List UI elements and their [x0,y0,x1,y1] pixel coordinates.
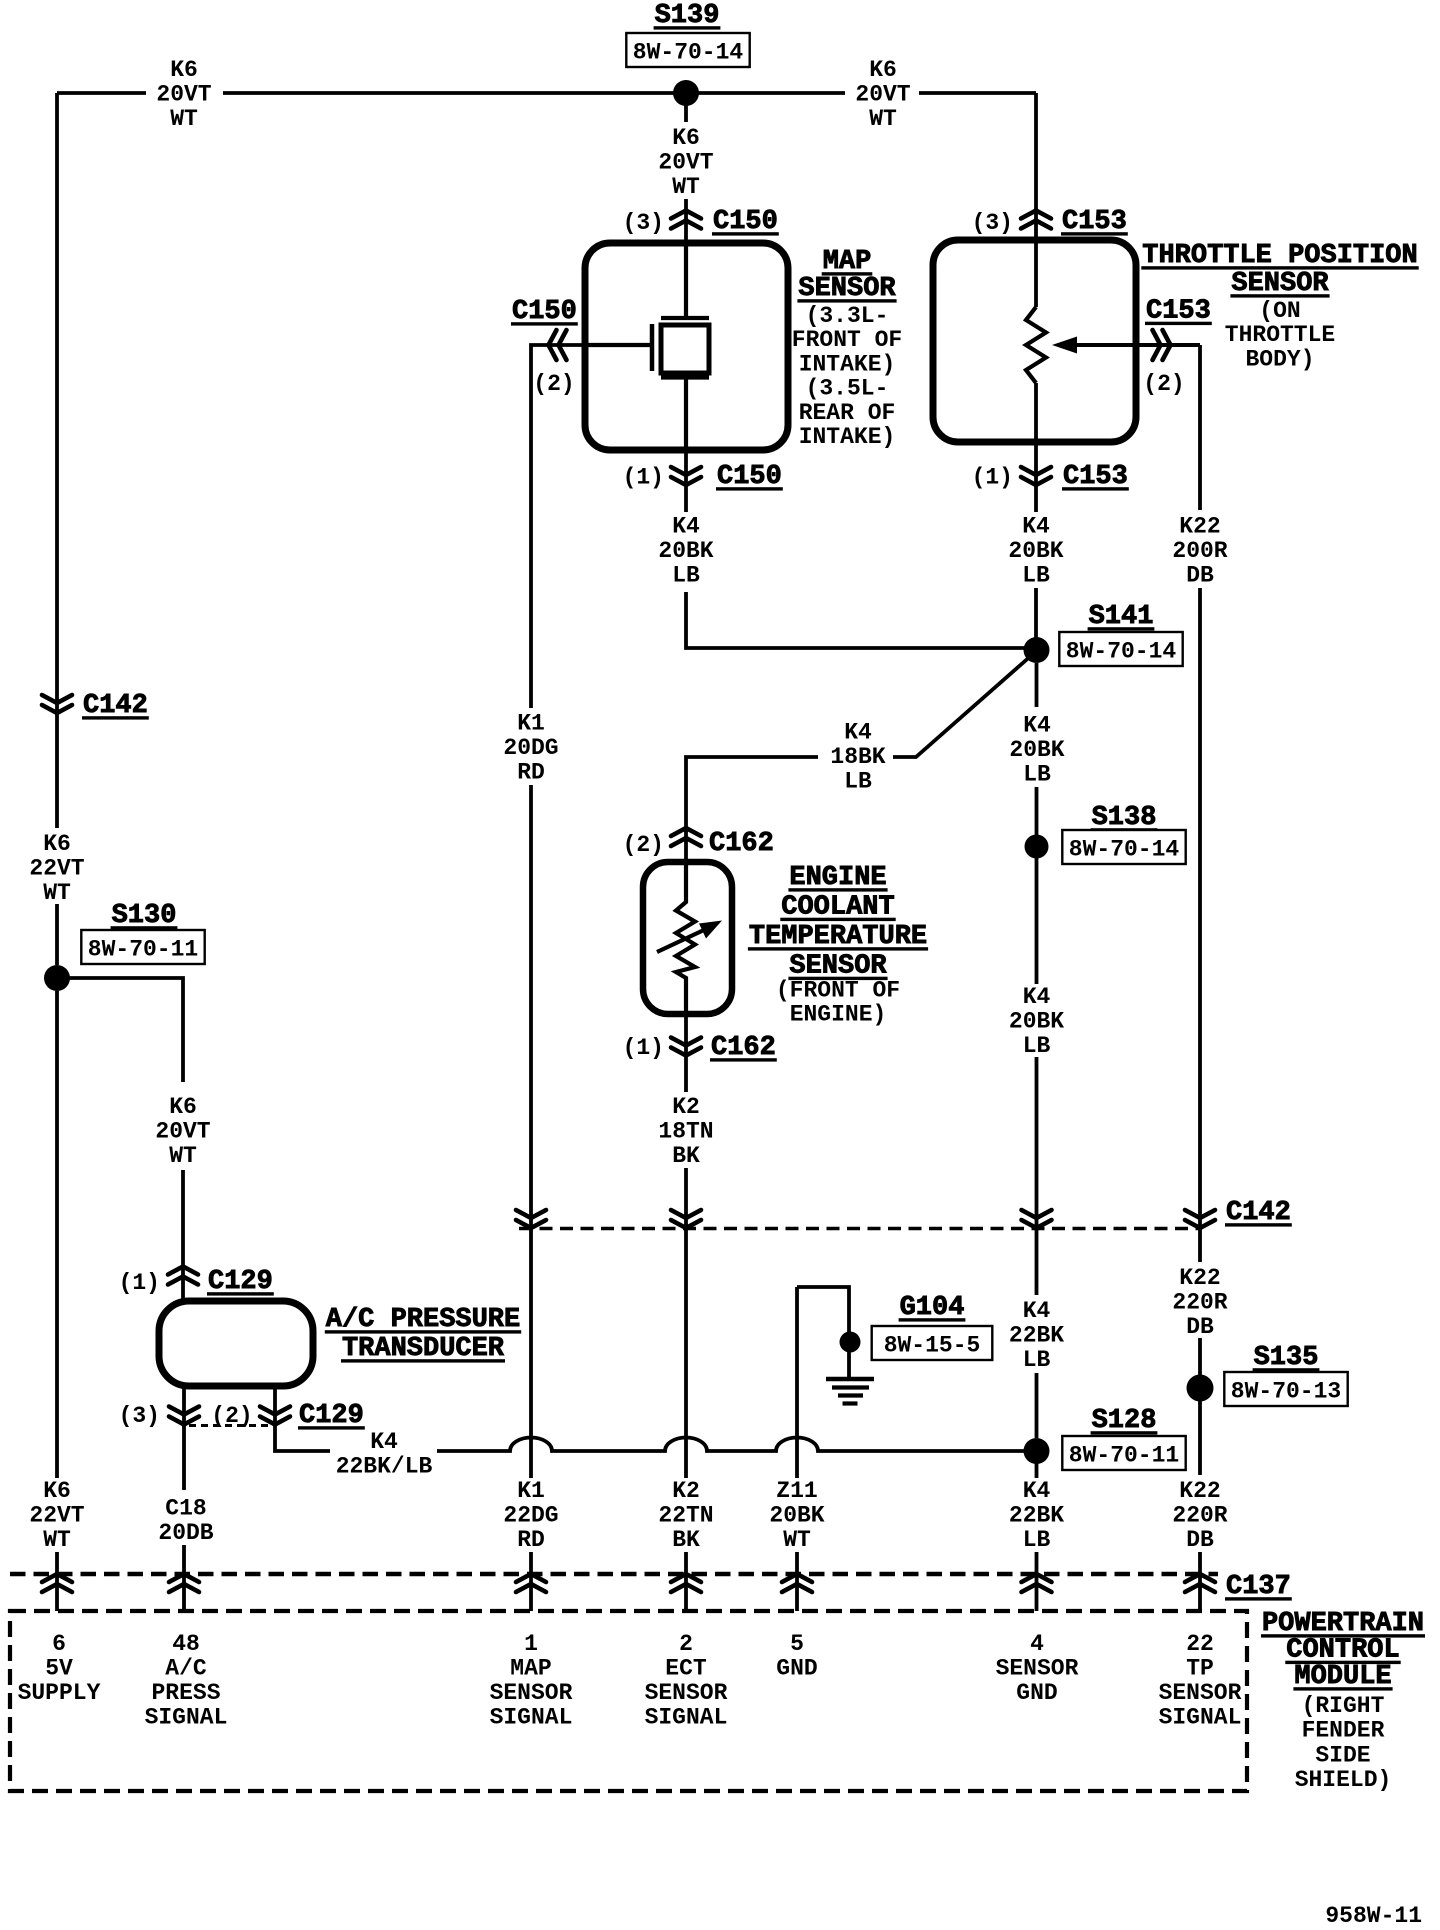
svg-text:BK: BK [672,1143,700,1169]
svg-text:K1: K1 [517,711,545,737]
svg-text:K2: K2 [672,1478,700,1504]
svg-text:(3): (3) [119,1403,160,1429]
wire K4 22BK LB below C142 [1035,1228,1039,1438]
svg-text:20DB: 20DB [158,1520,213,1546]
connector C150 pin 2 symbol [549,330,567,360]
svg-text:200R: 200R [1172,538,1227,564]
svg-text:INTAKE): INTAKE) [799,424,896,450]
svg-text:FENDER: FENDER [1302,1718,1385,1744]
connector C153 pin 2 symbol [1153,330,1171,360]
svg-text:SENSOR: SENSOR [490,1680,573,1706]
svg-text:GND: GND [776,1656,817,1682]
wire K22 below C142 [1198,1228,1202,1375]
svg-text:SENSOR: SENSOR [996,1656,1079,1682]
svg-text:DB: DB [1186,563,1214,589]
svg-text:SIDE: SIDE [1315,1742,1370,1768]
ground G104 branch [797,1287,849,1379]
svg-text:Z11: Z11 [776,1478,817,1504]
wire K22 below S135 [1198,1388,1202,1611]
svg-text:20BK: 20BK [1009,1009,1064,1035]
svg-text:SIGNAL: SIGNAL [490,1705,573,1731]
svg-text:20VT: 20VT [156,82,211,108]
connector C142 symbol on K4 [1022,1210,1052,1228]
svg-text:(1): (1) [623,465,664,491]
svg-text:DB: DB [1186,1314,1214,1340]
svg-text:FRONT OF: FRONT OF [792,327,902,353]
svg-text:INTAKE): INTAKE) [799,351,896,377]
svg-text:20VT: 20VT [855,82,910,108]
ref box 8W-70-11 at S130 [81,930,204,964]
svg-text:8W-70-13: 8W-70-13 [1231,1379,1341,1405]
svg-text:20BK: 20BK [658,538,713,564]
ECT thermistor element [676,862,695,1014]
svg-text:22BK/LB: 22BK/LB [336,1454,433,1480]
svg-text:WT: WT [869,106,897,132]
svg-text:20BK: 20BK [769,1503,824,1529]
powertrain control module dashed body [10,1611,1247,1791]
svg-text:SHIELD): SHIELD) [1295,1767,1392,1793]
svg-text:6: 6 [52,1631,66,1657]
svg-text:20BK: 20BK [1008,538,1063,564]
svg-text:K4: K4 [370,1429,398,1455]
svg-text:C162: C162 [709,829,774,859]
wire K4 from TPS pin 1 [1034,383,1038,650]
splice S141 [1024,637,1050,663]
svg-text:8W-70-11: 8W-70-11 [1069,1443,1179,1469]
ground G104 splice dot [840,1332,861,1353]
svg-text:220R: 220R [1172,1503,1227,1529]
ECT thermistor arrow [657,929,706,952]
svg-text:20VT: 20VT [658,150,713,176]
svg-text:22VT: 22VT [29,856,84,882]
splice S138 [1025,835,1049,859]
svg-text:(2): (2) [1143,371,1184,397]
wire K4 S138 down to C142 [1035,858,1039,1228]
connector C142 symbol on K22 [1185,1210,1215,1228]
svg-text:RD: RD [517,1527,545,1553]
svg-text:8W-70-14: 8W-70-14 [1069,837,1180,863]
splice S135 [1187,1375,1214,1402]
svg-text:LB: LB [1023,1527,1051,1553]
splice S128 [1024,1438,1050,1464]
svg-text:WT: WT [672,174,700,200]
connector C142 symbol (left) [42,695,72,713]
svg-text:ENGINE): ENGINE) [790,1002,887,1028]
svg-text:GND: GND [1016,1680,1057,1706]
svg-text:(RIGHT: (RIGHT [1302,1693,1385,1719]
svg-text:K4: K4 [1023,1298,1051,1324]
wire K6 from S139 to MAP sensor [684,93,688,243]
wire K4 18BK LB from S141 to ECT [686,654,1033,862]
svg-text:(1): (1) [972,465,1013,491]
svg-text:(1): (1) [119,1270,160,1296]
svg-text:(3.5L-: (3.5L- [806,376,889,402]
svg-text:K4: K4 [672,514,700,540]
svg-text:K2: K2 [672,1094,700,1120]
svg-text:K22: K22 [1179,1265,1220,1291]
throttle position sensor body [933,240,1136,442]
svg-text:22DG: 22DG [503,1503,558,1529]
svg-text:K1: K1 [517,1478,545,1504]
wire on left - K6 down from top [55,93,59,692]
connector C137 symbol on ECT wire [671,1574,701,1592]
svg-text:18BK: 18BK [830,744,885,770]
wire K4 22BK/LB from A/C transducer pin 2 [275,1386,1036,1451]
connector C150 pin 1 symbol [671,467,701,485]
svg-text:(3): (3) [623,210,664,236]
svg-text:SIGNAL: SIGNAL [1159,1705,1242,1731]
connector C153 pin 3 symbol [1021,211,1051,229]
wire K6 branch S130 to A/C transducer [57,978,183,1301]
svg-text:22TN: 22TN [658,1503,713,1529]
svg-text:LB: LB [1022,563,1050,589]
svg-text:(2): (2) [623,832,664,858]
connector C162 pin 1 symbol [671,1038,701,1056]
svg-text:SIGNAL: SIGNAL [145,1705,228,1731]
wire K6 20VT WT - top horizontal run [57,91,1036,95]
wire K4 from MAP pin 1 [686,450,1036,648]
svg-text:(ON: (ON [1259,298,1300,324]
svg-text:K4: K4 [1023,984,1051,1010]
svg-text:SUPPLY: SUPPLY [18,1680,101,1706]
svg-text:8W-70-11: 8W-70-11 [88,937,198,963]
connector C142 symbol on K1 [516,1210,546,1228]
wire K22 from TPS down [1198,345,1202,510]
svg-text:THROTTLE: THROTTLE [1225,322,1335,348]
svg-text:BODY): BODY) [1245,346,1314,372]
connector C129 pin 2 symbol [260,1407,290,1425]
svg-text:8W-70-14: 8W-70-14 [633,40,744,66]
svg-text:(3): (3) [972,210,1013,236]
wire K1 down to PCM [529,785,533,1611]
svg-text:K6: K6 [43,1478,71,1504]
MAP sensor element symbol [661,243,709,450]
svg-text:8W-15-5: 8W-15-5 [884,1333,981,1359]
svg-text:5: 5 [790,1631,804,1657]
wire K6 right branch down to TPS [1034,93,1038,307]
TPS resistor element [1026,307,1046,383]
svg-text:K22: K22 [1179,1478,1220,1504]
svg-text:4: 4 [1030,1631,1044,1657]
connector C137 symbol on GND wire [782,1574,812,1592]
inline connector C137 dashed line [10,1572,1218,1576]
svg-text:LB: LB [1023,1033,1051,1059]
svg-text:WT: WT [783,1527,811,1553]
wire K2 down to PCM [684,1228,688,1611]
svg-text:ECT: ECT [665,1656,707,1682]
ground symbol G104 [826,1377,874,1381]
svg-text:958W-11: 958W-11 [1325,1903,1422,1929]
svg-text:BK: BK [672,1527,700,1553]
wire Z11 down to PCM [795,1287,799,1611]
svg-text:WT: WT [169,1143,197,1169]
wire C18 from A/C transducer pin 3 [182,1386,186,1611]
svg-text:LB: LB [1023,1347,1051,1373]
svg-text:20DG: 20DG [503,735,558,761]
splice S130 [44,965,70,991]
svg-text:K4: K4 [1023,713,1051,739]
connector C150 pin 3 symbol [671,211,701,229]
svg-text:K6: K6 [672,125,700,151]
MAP sensor body [585,243,788,450]
svg-text:22VT: 22VT [29,1503,84,1529]
connector C137 symbol on sensor GND wire [1022,1574,1052,1592]
svg-text:WT: WT [170,106,198,132]
svg-text:K4: K4 [1023,1478,1051,1504]
wire K4 S141 to S138 [1035,663,1039,835]
svg-text:K4: K4 [1022,514,1050,540]
engine coolant temperature sensor body [643,862,732,1014]
svg-text:LB: LB [672,563,700,589]
TPS wiper arrow [1075,343,1200,347]
svg-text:RD: RD [517,760,545,786]
svg-text:WT: WT [43,880,71,906]
svg-text:PRESS: PRESS [151,1680,220,1706]
svg-text:A/C: A/C [165,1656,207,1682]
svg-text:22: 22 [1186,1631,1214,1657]
A/C pressure transducer body [159,1301,313,1386]
svg-text:20VT: 20VT [155,1119,210,1145]
svg-text:18TN: 18TN [658,1119,713,1145]
svg-text:22BK: 22BK [1009,1323,1064,1349]
svg-text:2: 2 [679,1631,693,1657]
svg-text:K6: K6 [43,831,71,857]
wire K22 continues to C142 [1198,588,1202,1228]
ref box 8W-70-11 at S128 [1062,1436,1185,1470]
svg-text:K6: K6 [169,1094,197,1120]
wire K4 below S128 [1035,1451,1039,1611]
svg-text:REAR OF: REAR OF [799,400,896,426]
svg-text:48: 48 [172,1631,200,1657]
svg-text:220R: 220R [1172,1290,1227,1316]
svg-text:K6: K6 [170,57,198,83]
dashed link C129 pins 3-2 [189,1424,270,1427]
svg-text:(3.3L-: (3.3L- [806,303,889,329]
wire K1 from MAP pin 2 [531,345,585,708]
svg-text:DB: DB [1186,1527,1214,1553]
ref box 8W-70-14 at S141 [1059,632,1182,666]
inline connector C142 dashed line [519,1227,1198,1230]
svg-text:MAP: MAP [510,1656,551,1682]
wire K2 from ECT pin 1 [684,1014,688,1228]
ref box 8W-70-14 at S139 [626,33,749,67]
connector C129 pin 1 symbol [168,1267,198,1285]
connector C162 pin 2 symbol [671,828,701,846]
connector C129 pin 3 symbol [169,1407,199,1425]
svg-text:SENSOR: SENSOR [1159,1680,1242,1706]
splice S139 [673,80,699,106]
ref box 8W-70-14 at S138 [1062,830,1185,864]
connector C137 symbol on MAP wire [516,1574,546,1592]
svg-text:(FRONT OF: (FRONT OF [776,978,900,1004]
connector C142 symbol on K2 [671,1210,701,1228]
svg-text:TP: TP [1186,1656,1214,1682]
svg-text:8W-70-14: 8W-70-14 [1066,639,1177,665]
wire K6 22VT below C142 [55,692,59,965]
svg-text:K22: K22 [1179,514,1220,540]
svg-text:SENSOR: SENSOR [645,1680,728,1706]
svg-text:SIGNAL: SIGNAL [645,1705,728,1731]
ref box 8W-70-13 at S135 [1224,1372,1347,1406]
svg-text:22BK: 22BK [1009,1503,1064,1529]
connector C137 symbol on A/C press wire [169,1574,199,1592]
connector C137 symbol on TP sensor wire [1185,1574,1215,1592]
svg-text:20BK: 20BK [1009,737,1064,763]
svg-text:(2): (2) [533,371,574,397]
connector C137 symbol on 5V supply wire [42,1574,72,1592]
svg-text:K6: K6 [869,57,897,83]
svg-text:C18: C18 [165,1496,206,1522]
ref box 8W-15-5 at G104 [872,1326,993,1360]
svg-text:1: 1 [524,1631,538,1657]
svg-text:WT: WT [43,1527,71,1553]
wire K6 into PCM [55,991,59,1611]
svg-text:K4: K4 [844,720,872,746]
svg-text:LB: LB [844,769,872,795]
svg-text:LB: LB [1023,762,1051,788]
svg-text:(1): (1) [623,1035,664,1061]
svg-text:5V: 5V [45,1656,73,1682]
connector C153 pin 1 symbol [1021,467,1051,485]
